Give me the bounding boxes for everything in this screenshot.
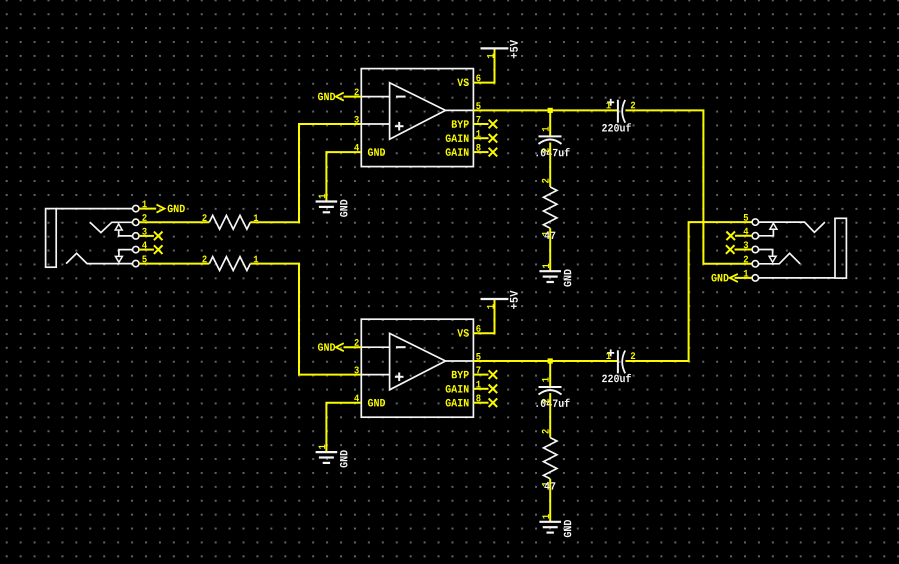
capacitor C3 220uf [602, 99, 635, 132]
wire U2 pin5 out to C2 [473, 360, 618, 362]
op-amp U2 pin labels [354, 325, 481, 406]
ground zobel2 [539, 514, 571, 537]
connector J1 pins [133, 201, 147, 267]
no-connect X U2 pin 1 GAIN [473, 385, 497, 394]
wire C3 to J2 pin2 [625, 110, 752, 263]
resistor R2 [202, 256, 258, 271]
no-connect X U2 pin 8 GAIN [473, 398, 497, 407]
wire U1 pin6 to +5V [473, 48, 494, 82]
no-connect X U1 pin 8 GAIN [473, 148, 497, 157]
wire J1 pin2 to R1 [139, 221, 209, 223]
capacitor C2 .047uf [536, 377, 569, 407]
wire junction down to C2 [549, 361, 551, 387]
ground zobel1 [539, 264, 571, 287]
net GND flag at U1 pin 2 [318, 93, 361, 101]
ground U1 [316, 194, 348, 217]
wire R4 to ground [549, 479, 551, 522]
wire U2 pin4 to ground [326, 403, 361, 452]
wire junction down to C1 [549, 110, 551, 136]
connector J2 body (output jack) [759, 218, 847, 278]
resistor R3 47 [542, 179, 557, 239]
ground U2 [316, 444, 348, 467]
wire U1 pin5 out to C1 [473, 109, 618, 111]
capacitor C1 .047uf [536, 127, 569, 157]
no-connect X J1 pin 4 [139, 245, 162, 254]
wire C4 to J2 pin5 [625, 222, 752, 361]
connector J1 body (input jack) [46, 209, 133, 268]
op-amp U2 body [361, 319, 473, 417]
no-connect X J2 pin 4 [726, 232, 752, 241]
wire U2 pin6 to +5V [473, 299, 494, 333]
no-connect X U2 pin 7 BYP [473, 370, 497, 379]
wire C2 to R4 [549, 393, 551, 438]
net GND flag at U2 pin 2 [318, 343, 361, 351]
net GND flag at J2 pin 1 [711, 274, 752, 282]
no-connect X J1 pin 3 [139, 232, 162, 241]
wire C1 to R3 [549, 143, 551, 188]
capacitor C4 220uf [602, 349, 635, 382]
wire R1 to U1 pin3 [250, 124, 361, 222]
no-connect X U1 pin 7 BYP [473, 120, 497, 129]
no-connect X U1 pin 1 GAIN [473, 134, 497, 143]
op-amp U1 pin labels [354, 74, 481, 155]
op-amp U1 body [361, 69, 473, 167]
junction node at U out [548, 358, 553, 363]
power +5V U2 [481, 291, 518, 309]
resistor R4 47 [542, 429, 557, 489]
wire U1 pin4 to ground [326, 152, 361, 201]
connector J2 pins [744, 214, 759, 281]
wire J1 pin5 to R2 [139, 263, 209, 265]
wire R2 to U2 pin3 [250, 264, 361, 375]
wire R3 to ground [549, 228, 551, 271]
no-connect X J2 pin 3 [726, 245, 752, 254]
power +5V U1 [481, 40, 518, 58]
resistor R1 [202, 214, 258, 229]
junction node at U out [548, 108, 553, 113]
net GND flag at J1 pin 1 [139, 205, 185, 213]
